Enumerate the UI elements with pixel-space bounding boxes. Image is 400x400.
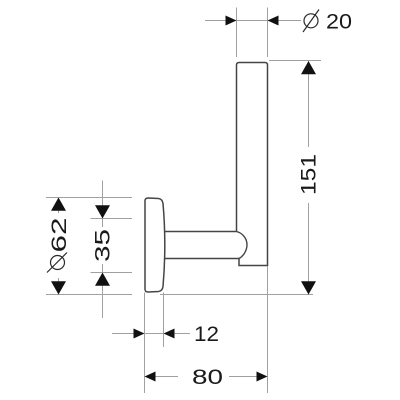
dimension Ø20: left arrow: [226, 16, 237, 26]
dimension Ø20: right extension line: [267, 8, 269, 58]
dimension 35: bottom extension line: [91, 272, 133, 274]
dimension Ø62: top arrow: [51, 198, 66, 211]
arm bottom edge: [164, 258, 239, 260]
dimension 35: dimension line lower segment: [102, 264, 104, 318]
svg-text:12: 12: [194, 323, 219, 346]
dimension 80: right extension line: [267, 266, 269, 393]
dimension 80: right dimension line segment: [229, 376, 257, 378]
dimension 35: top extension line: [91, 218, 133, 220]
dimension Ø20: right arrow: [268, 16, 279, 26]
svg-text:20: 20: [326, 11, 352, 34]
dimension 35: dimension line upper segment: [102, 181, 104, 228]
dimension Ø20: left extension line: [236, 8, 238, 58]
svg-text:35: 35: [92, 229, 115, 262]
dimension 80: left arrow (pointing left): [145, 372, 156, 382]
wall plate (escutcheon Ø62): [145, 198, 165, 292]
dimension Ø62: bottom arrow: [51, 281, 66, 294]
dimension 12: line between extension lines: [145, 333, 164, 335]
dimension 151: dimension line upper segment: [308, 61, 310, 147]
dimension Ø62: value 62 (rotated): [48, 218, 71, 253]
dimension 12: right extension line: [163, 293, 165, 348]
dimension Ø62: dimension line lower segment: [58, 278, 60, 295]
dimension 80: left dimension line segment: [156, 376, 179, 378]
dimension 80: right arrow (pointing right): [257, 372, 268, 382]
svg-text:62: 62: [48, 218, 71, 253]
rod (spare roll holder pin): [237, 63, 268, 266]
dimension 151: value 151 (rotated): [298, 154, 321, 195]
dimension Ø20: dimension line: [205, 20, 301, 22]
dimension 12: left arrow (pointing right): [134, 329, 145, 339]
rod bottom cap fillet: [237, 232, 248, 259]
dimension Ø62: diameter symbol (rotated): [47, 253, 67, 273]
dimension 80: left extension line: [144, 293, 146, 394]
dimension Ø62: dimension line upper segment: [58, 198, 60, 214]
svg-text:151: 151: [298, 154, 321, 195]
dimension 12: left leader line: [112, 333, 134, 335]
dimension 35: top arrow (pointing down): [95, 205, 110, 218]
dimension 35: bottom arrow (pointing up): [95, 273, 110, 286]
dimension Ø20: diameter symbol: [303, 10, 319, 33]
dimension Ø62: bottom extension line: [46, 294, 132, 296]
dimension 151: top arrow: [301, 61, 316, 74]
dimension 12: right arrow (pointing left): [164, 329, 175, 339]
dimension 151: bottom arrow: [301, 281, 316, 294]
dimension 151: bottom extension line: [160, 294, 313, 296]
dimension Ø62: top extension line: [46, 197, 132, 199]
dimension 12: right leader line: [175, 333, 191, 335]
dimension 35: value 35 (rotated): [92, 229, 115, 262]
arm top edge: [163, 231, 236, 233]
dimension 151: dimension line lower segment: [308, 203, 310, 295]
svg-text:80: 80: [192, 366, 223, 389]
dimension 151: top extension line: [269, 60, 321, 62]
